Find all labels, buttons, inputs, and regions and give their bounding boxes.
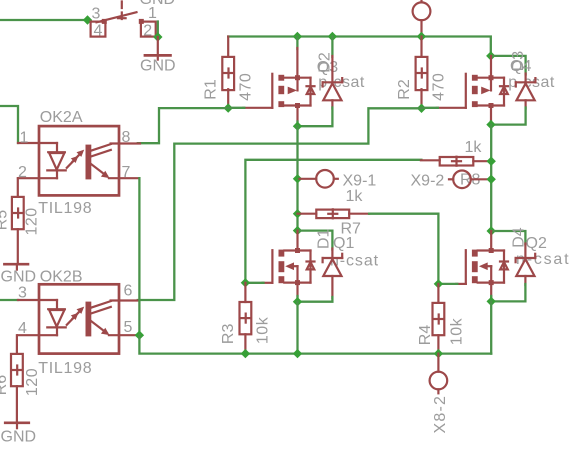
resistor R5 [12, 197, 24, 264]
svg-text:120: 120 [24, 207, 41, 235]
wire top right to D3 [491, 56, 526, 75]
transistor Q3 (p-channel MOSFET top-left) [228, 74, 314, 108]
diode D1 [323, 249, 343, 299]
svg-text:R5: R5 [0, 210, 11, 231]
label 120 (R5) [24, 207, 41, 235]
svg-text:1: 1 [20, 129, 29, 146]
label GND (R5) [1, 269, 37, 286]
label R8 [460, 171, 481, 188]
label GND clipped at top edge [140, 0, 176, 8]
label pin 3 [18, 285, 27, 302]
wire D3 anode to Q4 source junction [491, 108, 526, 125]
label pad 4 [94, 23, 103, 40]
label 10k (R4) [449, 317, 466, 345]
junction bottom rail at R4/X8-2 [434, 349, 443, 358]
svg-text:2: 2 [143, 23, 152, 40]
switch S1 lever [97, 12, 137, 22]
label GND (R6) [1, 429, 37, 446]
junction X9-1 tap [293, 174, 302, 183]
pin X8-2 [430, 354, 448, 394]
label pin 4 [18, 320, 27, 337]
wire D1 anode to Q1 source junction [298, 297, 333, 302]
svg-text:3: 3 [18, 285, 27, 302]
label n-csat (Q1) [330, 253, 379, 270]
svg-text:R3: R3 [220, 324, 237, 345]
svg-text:R1: R1 [203, 79, 220, 100]
label pin 2 [18, 164, 27, 181]
label GND (switch) [140, 58, 176, 75]
label pin 8 [122, 129, 131, 146]
wire OK2A pin7 down to OK2B pin5 [138, 178, 140, 335]
diode D4 [516, 244, 536, 286]
label Q2 [526, 235, 547, 252]
svg-text:120: 120 [24, 368, 41, 396]
svg-text:10k: 10k [254, 316, 271, 344]
svg-text:8: 8 [122, 129, 131, 146]
junction Q2 drain / D4 [487, 226, 496, 235]
svg-text:GND: GND [1, 429, 37, 446]
junction Q1 drain / D1 [293, 226, 302, 235]
svg-text:TIL198: TIL198 [38, 360, 92, 377]
wire D4 anode to Q2 source junction [491, 284, 525, 301]
resistor R3 [240, 283, 252, 354]
label 470 (R2) [431, 73, 448, 101]
junction bottom rail at Q1 source [293, 349, 302, 358]
svg-text:10k: 10k [449, 317, 466, 345]
svg-text:1k: 1k [465, 139, 483, 156]
svg-text:OK2B: OK2B [40, 268, 83, 285]
junction Q1 gate / R3 [241, 278, 250, 287]
label TIL198 (OK2A) [38, 200, 92, 217]
diode D2 [323, 37, 343, 109]
resistor R2 [416, 37, 428, 109]
svg-text:D1: D1 [316, 228, 333, 249]
junction R8 right [487, 157, 496, 166]
wire right mid vertical (Q4 source bus) [490, 125, 492, 231]
junction X9-2 tap [487, 175, 496, 184]
junction OK2B pin5 [135, 331, 144, 340]
wire D4 cathode branch [491, 231, 525, 244]
ground symbol GND (R6) [4, 423, 30, 428]
ground symbol GND (R5) [3, 264, 29, 269]
junction Q2 gate / R4 [434, 279, 443, 288]
svg-text:GND: GND [140, 0, 176, 8]
label pin 6 [124, 283, 133, 300]
wire Q4 source to lower junction [490, 106, 492, 125]
wire Q2 source to bottom rail [490, 301, 492, 353]
wire OK2B pin4 to R6 [16, 335, 18, 354]
junction Q1 source [293, 297, 302, 306]
label 10k (R3) [254, 316, 271, 344]
svg-text:1k: 1k [346, 188, 364, 205]
svg-text:X9-1: X9-1 [343, 172, 377, 189]
wire D1 cathode branch [298, 231, 333, 250]
svg-text:OK2A: OK2A [40, 109, 83, 126]
wire left edge to OK2A pin1 [0, 106, 18, 143]
svg-text:TIL198: TIL198 [38, 200, 92, 217]
wire C: R3/Q1-gate to R8 [245, 160, 421, 283]
svg-text:GND: GND [1, 269, 37, 286]
wire OK2B pin5 to bottom rail [139, 335, 491, 353]
label R3 [220, 324, 237, 345]
wire D2 anode to Q3 source junction [298, 108, 333, 127]
svg-text:R6: R6 [0, 375, 10, 396]
svg-text:7: 7 [122, 164, 131, 181]
junction Q3 source / D2 [293, 122, 302, 131]
wire switch pin1 to pin2 short [157, 22, 159, 38]
resistor R4 [433, 284, 445, 354]
label D3 [510, 51, 527, 72]
svg-text:R2: R2 [396, 79, 413, 100]
label OK2A [40, 109, 83, 126]
pin X9-1 [300, 170, 338, 188]
junction bottom rail at R3 [241, 349, 250, 358]
wire Q3 source to lower junction [296, 106, 298, 127]
wire left edge to OK2B pin3 [0, 299, 18, 301]
optocoupler OK2B [18, 284, 138, 353]
label X9-1 [343, 172, 377, 189]
junction R1 bottom [224, 103, 233, 112]
wire top-left net to switch [0, 19, 88, 21]
label n-csat (Q2) [516, 251, 570, 268]
svg-text:R4: R4 [417, 325, 434, 346]
label p-csat (Q3) [318, 74, 365, 91]
resistor R8 [421, 157, 491, 166]
ground symbol GND (switch) [144, 55, 172, 59]
label 120 (R6) [24, 368, 41, 396]
label TIL198 (OK2B) [38, 360, 92, 377]
wire supply to top rail [420, 20, 422, 36]
label pin 1 [20, 129, 29, 146]
switch S1 pin 1 origin dot [139, 19, 144, 24]
label R1 [203, 79, 220, 100]
label pin 7 [122, 164, 131, 181]
transistor Q4 (p-channel MOSFET top-right) [422, 74, 509, 108]
label Q3 [317, 59, 338, 76]
pin X9-2 [449, 171, 491, 189]
svg-text:Q4: Q4 [510, 58, 531, 75]
label R5 [0, 210, 11, 231]
svg-text:6: 6 [124, 283, 133, 300]
label 1k (R7) [346, 188, 364, 205]
wire left mid vertical (Q3 source bus) [296, 126, 298, 231]
label pad 2 [143, 23, 152, 40]
svg-text:4: 4 [94, 23, 103, 40]
label 470 (R1) [237, 73, 254, 101]
svg-text:X8-2: X8-2 [432, 395, 449, 434]
label R4 [417, 325, 434, 346]
junction R7 left [293, 209, 302, 218]
junction switch pin2/gnd [153, 32, 162, 41]
svg-text:X9-2: X9-2 [411, 172, 445, 189]
wire OK2A pin8 net to R1 bottom (gate net Q3) [138, 108, 228, 143]
svg-text:470: 470 [237, 73, 254, 101]
resistor R7 [298, 209, 370, 218]
optocoupler OK2A [18, 126, 140, 195]
junction top right corner at Q4 [486, 51, 495, 60]
label pin 3 [92, 6, 101, 23]
label Q1 [333, 235, 354, 252]
label R2 [396, 79, 413, 100]
label 1k (R8) [465, 139, 483, 156]
junction R2 bottom [417, 104, 426, 113]
node supply pin circle top [413, 0, 431, 20]
junction at switch pin 3/4 [83, 15, 92, 24]
label R6 [0, 375, 10, 396]
label X8-2 [432, 395, 449, 434]
label R7 [341, 220, 362, 237]
svg-text:3: 3 [92, 6, 101, 23]
label p-csat (Q4) [508, 74, 555, 91]
wire OK2A pin2 to R5 [17, 178, 19, 197]
label Q4 [510, 58, 531, 75]
label pin 5 [124, 319, 133, 336]
junction Q4 source / D3 [486, 120, 495, 129]
resistor R6 [11, 354, 23, 423]
junction Q2 source [487, 297, 496, 306]
junction top rail at Q3 drain [293, 32, 302, 41]
wire Q1 source to bottom rail [296, 302, 298, 354]
wire OK2B pin6 net to R2 bottom (gate net Q4) [138, 108, 422, 300]
svg-text:Q2: Q2 [526, 235, 547, 252]
svg-text:470: 470 [431, 73, 448, 101]
ground stub under switch [157, 37, 159, 55]
junction top rail at D2 [328, 32, 337, 41]
label D4 [511, 227, 528, 248]
transistor Q2 (n-channel MOSFET bottom-right) [438, 231, 508, 301]
label D1 [316, 228, 333, 249]
svg-text:4: 4 [18, 320, 27, 337]
label OK2B [40, 268, 83, 285]
transistor Q1 (n-channel MOSFET bottom-left) [245, 231, 314, 302]
diode D3 [516, 74, 536, 109]
label pin 1 [148, 5, 157, 22]
svg-text:5: 5 [124, 319, 133, 336]
resistor R1 [222, 37, 234, 109]
wire Q3 drain to top rail [296, 37, 298, 78]
svg-text:GND: GND [140, 58, 176, 75]
wire top rail [228, 37, 491, 56]
svg-text:2: 2 [18, 164, 27, 181]
switch S1 actuator dashed line [118, 2, 126, 24]
wire Q4 drain lead [490, 56, 492, 78]
junction top rail at R2/supply [417, 32, 426, 41]
switch S1 pad 2 [141, 22, 156, 37]
switch S1 pad 4 [91, 22, 106, 37]
label D2 [317, 52, 334, 73]
label X9-2 [411, 172, 445, 189]
switch S1 pin 3 origin dot [102, 19, 107, 24]
svg-text:Q1: Q1 [333, 235, 354, 252]
wire R7 right to Q2 gate junction [369, 214, 438, 284]
